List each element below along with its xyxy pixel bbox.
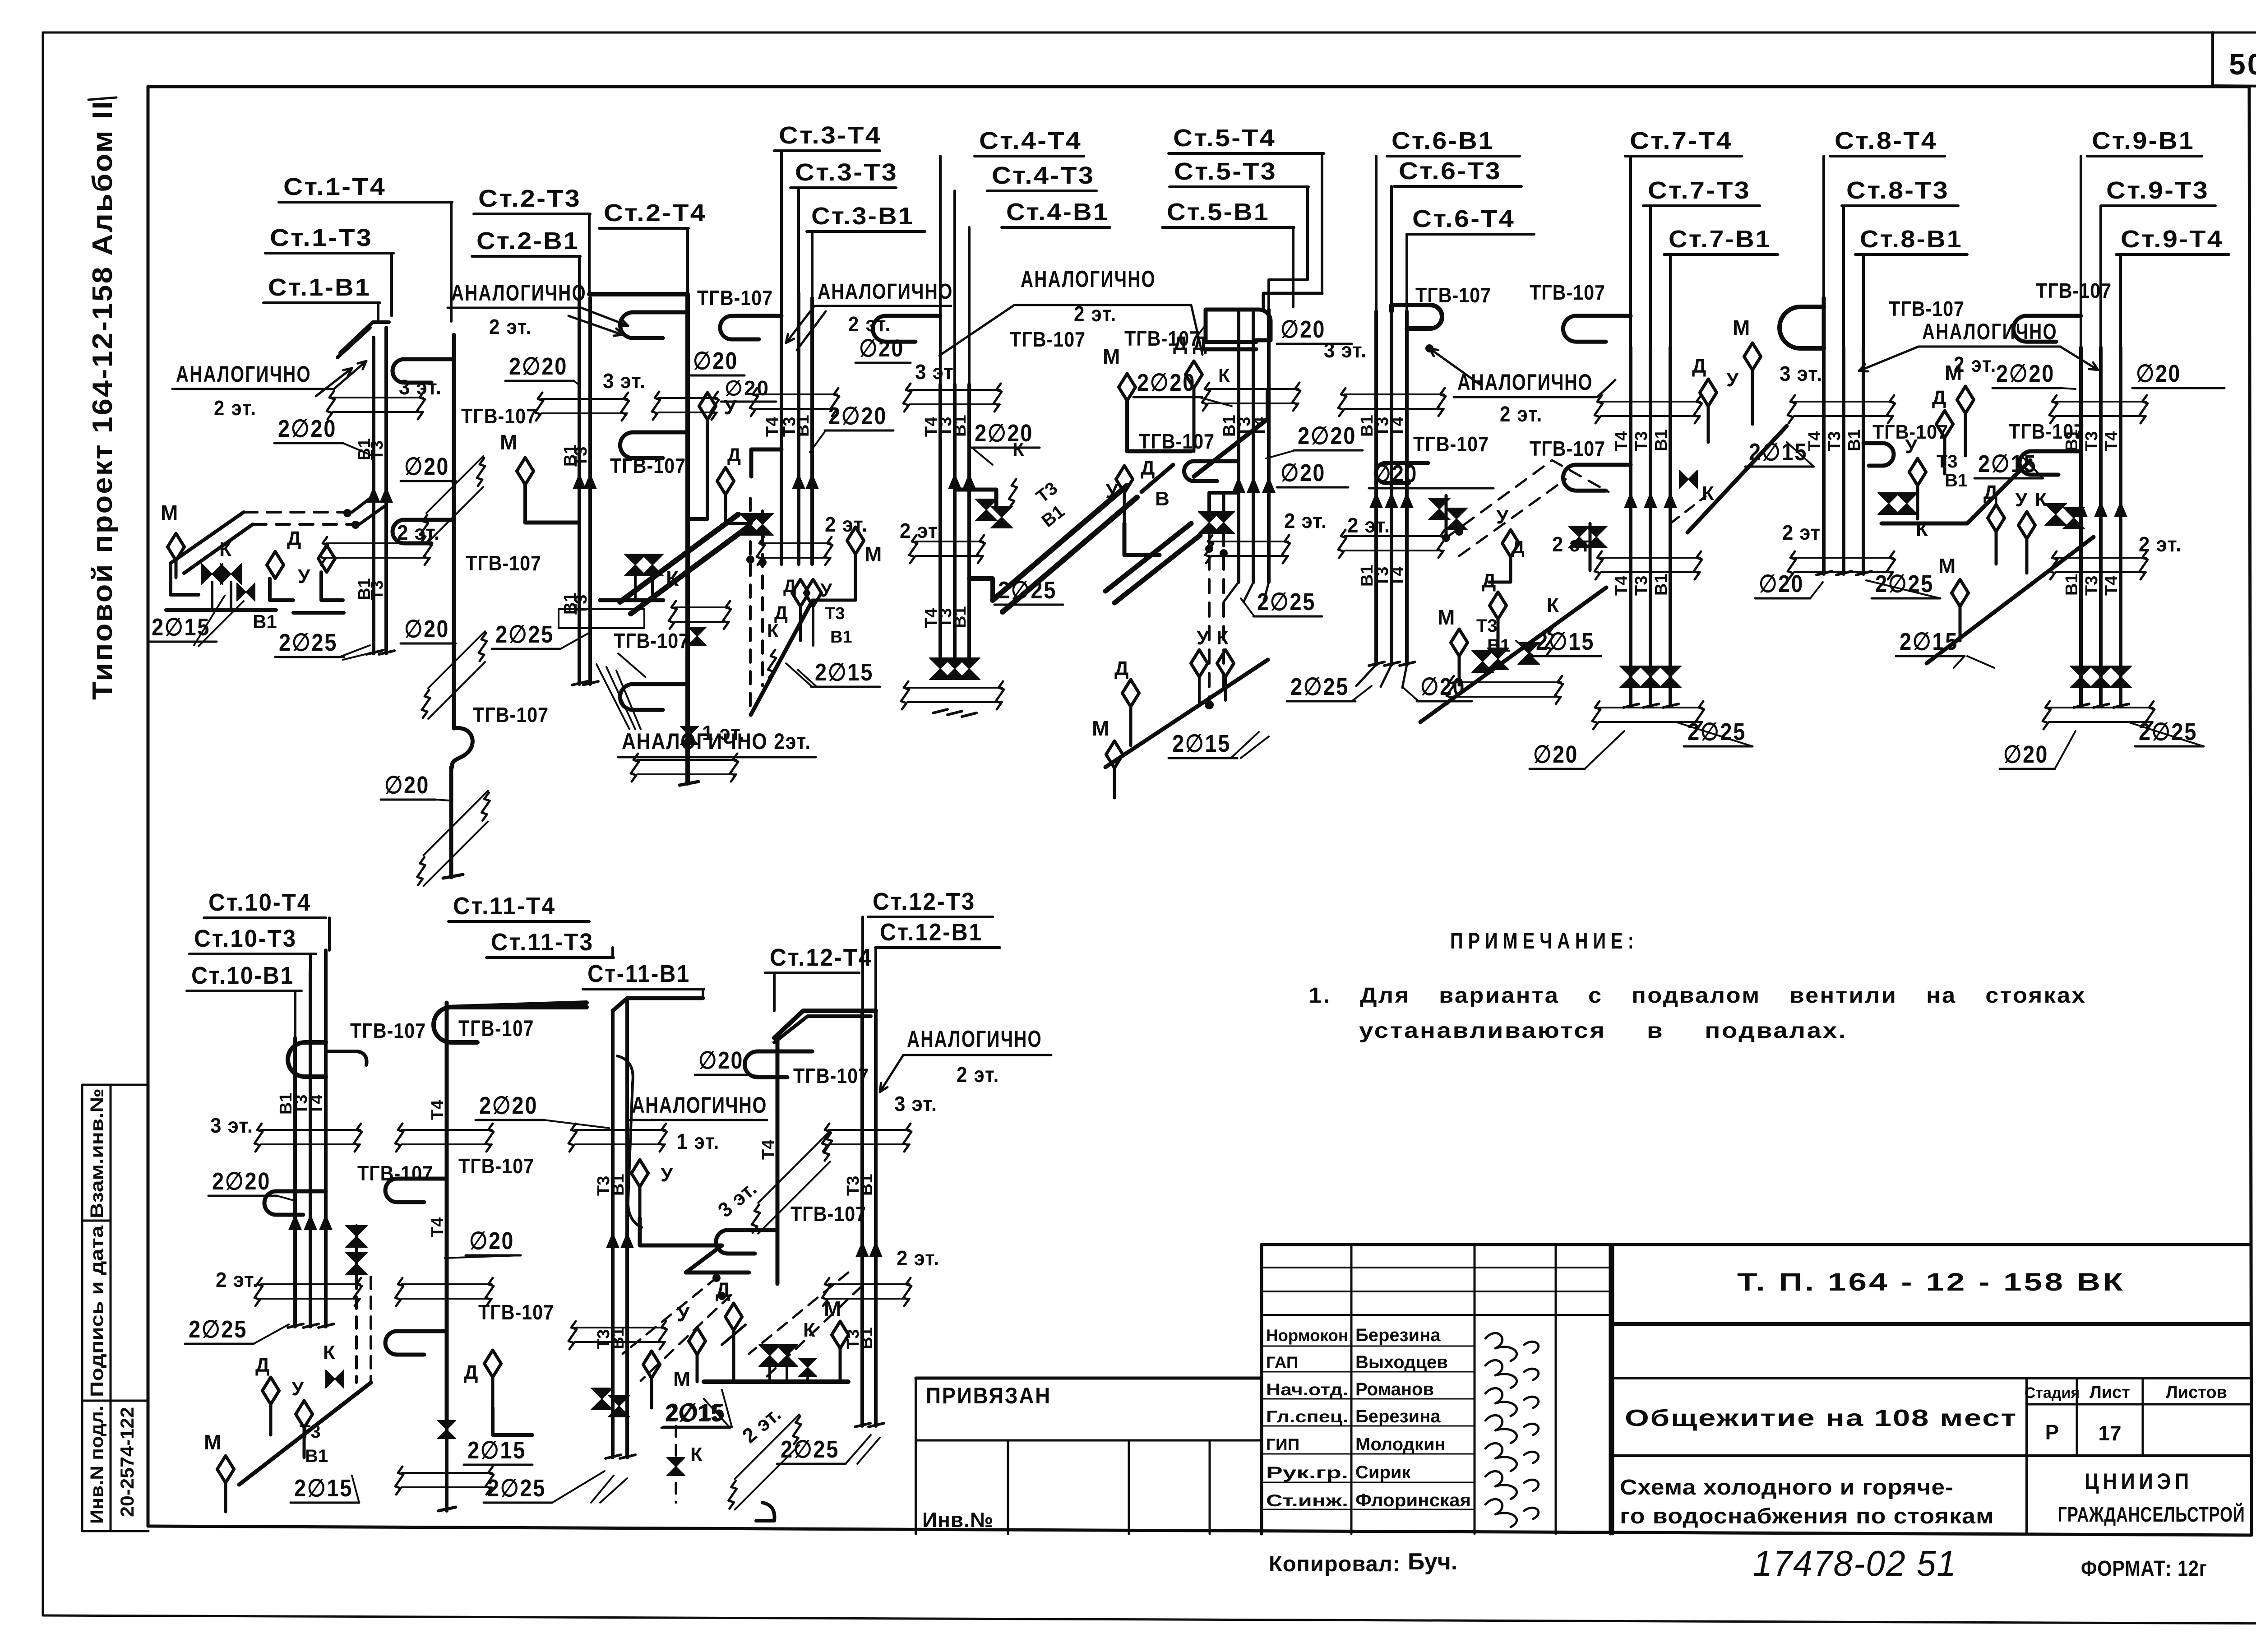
towel rail xyxy=(1563,316,1631,342)
valve pair 3 xyxy=(740,514,761,535)
pipe riser x=4700 xyxy=(2119,347,2122,707)
svg-text:Ст.6-В1: Ст.6-В1 xyxy=(1392,127,1494,154)
svg-text:У: У xyxy=(2015,489,2028,511)
svg-text:1 эт.: 1 эт. xyxy=(677,1130,720,1154)
floor crossing col 2 xyxy=(402,1283,492,1285)
svg-text:М: М xyxy=(864,542,882,566)
pipe Т4 12 xyxy=(776,1038,780,1284)
svg-text:Т4: Т4 xyxy=(1388,417,1407,437)
cluster base 1 xyxy=(166,608,276,612)
svg-text:ТГВ-107: ТГВ-107 xyxy=(791,1202,866,1226)
valve pair 8 xyxy=(1878,493,1900,514)
svg-text:Т3: Т3 xyxy=(2082,576,2101,596)
svg-text:Молодкин: Молодкин xyxy=(1355,1435,1446,1454)
svg-text:Нач.отд.: Нач.отд. xyxy=(1266,1380,1348,1399)
pipe riser x=1770 xyxy=(797,293,800,564)
svg-text:Инв.N подл.: Инв.N подл. xyxy=(87,1406,107,1524)
svg-text:3 эт.: 3 эт. xyxy=(1780,362,1822,385)
svg-text:В1: В1 xyxy=(830,628,852,647)
fixture У xyxy=(699,393,716,420)
svg-text:Листов: Листов xyxy=(2166,1383,2227,1402)
dashed risers 5 xyxy=(1208,532,1211,704)
svg-text:2∅15: 2∅15 xyxy=(667,1399,726,1426)
svg-text:3 эт.: 3 эт. xyxy=(713,1176,761,1222)
svg-text:∅20: ∅20 xyxy=(693,347,738,375)
flow arrow xyxy=(855,1241,869,1257)
leader 12 xyxy=(880,1055,903,1092)
svg-text:К: К xyxy=(666,567,679,590)
pipe riser x=4086 xyxy=(1842,347,1845,574)
svg-text:2∅25: 2∅25 xyxy=(1257,588,1316,615)
valve pair 5 xyxy=(1198,512,1220,533)
leader arrow xyxy=(334,361,366,389)
svg-text:2 эт.: 2 эт. xyxy=(397,521,440,544)
pipe riser x=3614 xyxy=(1629,347,1632,707)
svg-text:ГИП: ГИП xyxy=(1266,1435,1299,1454)
junction dots 1 xyxy=(343,509,351,517)
towel rail 5m xyxy=(1184,461,1236,481)
svg-text:2∅25: 2∅25 xyxy=(781,1436,839,1463)
dashed connector 1b xyxy=(253,523,359,526)
pipe diagonal pair xyxy=(620,514,738,602)
svg-text:Ст.7-Т4: Ст.7-Т4 xyxy=(1630,127,1733,154)
floor crossing col 1 xyxy=(402,1129,492,1131)
svg-text:Д: Д xyxy=(1482,570,1496,592)
svg-text:2 эт.: 2 эт. xyxy=(957,1063,999,1087)
svg-text:2∅20: 2∅20 xyxy=(479,1092,538,1119)
pipe feet 11 xyxy=(605,1457,635,1458)
pipe riser x=654 xyxy=(293,1038,297,1327)
svg-text:2∅15: 2∅15 xyxy=(815,659,874,686)
flow arrow xyxy=(1400,492,1414,508)
floor crossing 2эт xyxy=(1794,557,1893,559)
svg-text:М: М xyxy=(500,430,517,454)
svg-text:2∅15: 2∅15 xyxy=(1172,730,1231,757)
pipe riser x=1308 xyxy=(588,298,592,684)
floor crossing 2эт 1 xyxy=(326,542,430,544)
valve К bottom xyxy=(667,1458,685,1476)
zig thick 5 xyxy=(1124,523,1160,555)
flow arrow xyxy=(2094,501,2108,517)
svg-text:ТГВ-107: ТГВ-107 xyxy=(2009,420,2085,443)
svg-text:АНАЛОГИЧНО: АНАЛОГИЧНО xyxy=(1021,266,1156,292)
valve К xyxy=(688,627,706,645)
svg-text:Ст.1-Т4: Ст.1-Т4 xyxy=(283,173,386,200)
svg-text:Т3: Т3 xyxy=(2082,431,2101,451)
svg-text:В1: В1 xyxy=(1652,429,1671,451)
pipe riser x=2745 xyxy=(1237,310,1240,582)
svg-text:2∅25: 2∅25 xyxy=(1290,673,1349,700)
svg-text:Ст.2-Т4: Ст.2-Т4 xyxy=(604,199,707,227)
svg-text:ГРАЖДАНСЕЛЬСТРОЙ: ГРАЖДАНСЕЛЬСТРОЙ xyxy=(2058,1503,2245,1526)
svg-text:В1: В1 xyxy=(1845,429,1864,451)
floor crossing xyxy=(658,397,717,399)
pipe top bar xyxy=(589,292,688,296)
flow arrow xyxy=(1369,492,1383,508)
svg-text:ТГВ-107: ТГВ-107 xyxy=(610,454,686,477)
svg-text:2∅20: 2∅20 xyxy=(975,420,1033,447)
pipe ТГВ riser lower xyxy=(449,767,453,877)
dashed diag 12 xyxy=(749,1273,848,1354)
svg-text:В1: В1 xyxy=(794,415,813,437)
pipe riser x=4042 xyxy=(1822,347,1826,574)
floor crossing xyxy=(675,606,729,608)
floor crossing низ 6 xyxy=(1453,681,1561,683)
svg-text:В1: В1 xyxy=(951,606,970,628)
svg-text:2∅15: 2∅15 xyxy=(294,1475,353,1502)
floor crossing 3эт 3 xyxy=(756,393,837,395)
svg-text:Гл.спец.: Гл.спец. xyxy=(1266,1407,1348,1426)
floor crossing 3эт 5 xyxy=(1208,388,1299,390)
svg-text:Т3: Т3 xyxy=(368,580,387,600)
dashed diag 11 xyxy=(623,1277,717,1354)
valve 1эт xyxy=(680,727,698,745)
junction dots xyxy=(712,1274,721,1282)
dashed leg xyxy=(1670,496,1706,523)
dashed parallelogram 6 xyxy=(1446,460,1609,538)
leader 5 xyxy=(1195,325,1206,339)
svg-text:2 эт.: 2 эт. xyxy=(2139,532,2182,556)
flow arrow xyxy=(288,1214,302,1230)
triple valves xyxy=(1620,666,1641,688)
pipe riser x=4612 xyxy=(2079,347,2083,707)
svg-text:ТГВ-107: ТГВ-107 xyxy=(614,629,689,652)
svg-text:Типовой проект 164-12-158: Типовой проект 164-12-158 Альбом II xyxy=(87,100,118,700)
svg-text:Ст.8-Т4: Ст.8-Т4 xyxy=(1835,127,1937,154)
svg-text:Нормокон: Нормокон xyxy=(1266,1326,1348,1345)
svg-text:ТГВ-107: ТГВ-107 xyxy=(1530,437,1605,460)
svg-text:2 эт.: 2 эт. xyxy=(825,513,868,536)
towel rail big xyxy=(1780,307,1824,348)
svg-text:М: М xyxy=(1938,554,1956,578)
floor crossing low 9 xyxy=(2049,707,2153,708)
svg-text:Т3: Т3 xyxy=(572,595,591,615)
title block signature table xyxy=(1262,1243,1610,1246)
svg-text:Д: Д xyxy=(1141,457,1155,479)
pipe feet 6 xyxy=(1356,665,1376,686)
svg-text:Ст.инж.: Ст.инж. xyxy=(1266,1491,1348,1510)
svg-text:2 эт.: 2 эт. xyxy=(489,315,532,338)
cluster base 6 xyxy=(1420,588,1606,722)
towel block 5 xyxy=(1203,310,1271,349)
svg-text:ЦНИИЭП: ЦНИИЭП xyxy=(2085,1469,2193,1494)
title block grid stadia list xyxy=(2025,1378,2028,1534)
svg-text:2∅25: 2∅25 xyxy=(189,1316,247,1343)
floor crossing 2эт 3 xyxy=(763,542,831,544)
svg-text:ПРИВЯЗАН: ПРИВЯЗАН xyxy=(926,1383,1051,1408)
floor crossing 2эт 10 xyxy=(261,1283,360,1285)
svg-text:ТГВ-107: ТГВ-107 xyxy=(1010,328,1086,351)
svg-text:Д: Д xyxy=(1932,387,1946,409)
drop jog В1 5 xyxy=(1292,298,1294,307)
pipe riser x=2778 xyxy=(1252,310,1255,582)
svg-text:∅20: ∅20 xyxy=(859,335,904,362)
flow arrow xyxy=(319,1214,333,1230)
pipe riser x=4656 xyxy=(2099,347,2103,707)
corner step 4 xyxy=(969,578,993,600)
floor crossing 2эт 5 xyxy=(1211,541,1288,542)
svg-text:Ст.6-Т3: Ст.6-Т3 xyxy=(1399,157,1502,185)
floor crossing 3эт 6 xyxy=(1345,393,1444,395)
svg-text:ТГВ-107: ТГВ-107 xyxy=(357,1161,433,1185)
svg-text:2 эт: 2 эт xyxy=(900,519,938,542)
svg-text:Ст-11-В1: Ст-11-В1 xyxy=(587,960,690,987)
towel rail hook xyxy=(452,728,472,767)
cluster base 3 xyxy=(751,601,812,715)
pipe roof 12 xyxy=(774,1011,876,1038)
slanted floor crossing xyxy=(424,791,488,856)
svg-text:2∅25: 2∅25 xyxy=(487,1475,546,1502)
pipe riser x=1284 xyxy=(578,298,581,684)
svg-text:М: М xyxy=(1092,717,1109,740)
svg-text:2∅20: 2∅20 xyxy=(278,415,337,442)
pipe riser x=688 xyxy=(309,970,312,1327)
svg-text:В1: В1 xyxy=(951,415,970,437)
floor crossing 3эт xyxy=(2056,401,2146,403)
svg-text:К: К xyxy=(1216,627,1229,649)
pipe riser x=3084 xyxy=(1390,311,1393,665)
stair double 5 xyxy=(1105,523,1191,591)
svg-text:АНАЛОГИЧНО: АНАЛОГИЧНО xyxy=(907,1026,1042,1052)
pipe stub xyxy=(445,1426,448,1511)
svg-text:Общежитие на 108 мест: Общежитие на 108 мест xyxy=(1625,1405,2017,1431)
svg-text:Ст.3-Т3: Ст.3-Т3 xyxy=(795,159,898,186)
cluster base 9 xyxy=(1927,537,2094,663)
pipe riser x=722 xyxy=(324,950,328,1327)
pipe riser x=1800 xyxy=(810,298,814,564)
pipe riser x=2812 xyxy=(1267,310,1271,582)
svg-text:3 эт.: 3 эт. xyxy=(1324,338,1367,362)
svg-text:АНАЛОГИЧНО: АНАЛОГИЧНО xyxy=(632,1092,767,1118)
svg-text:М: М xyxy=(1733,316,1750,339)
svg-text:2∅25: 2∅25 xyxy=(495,621,554,648)
svg-text:Стадия: Стадия xyxy=(2025,1384,2080,1402)
svg-text:В1: В1 xyxy=(857,1327,876,1349)
towel rail 9b xyxy=(2020,451,2081,475)
drop Т4 6 xyxy=(1405,234,1408,311)
leader fan 3 xyxy=(786,306,814,343)
left margin boxes xyxy=(82,1084,148,1086)
svg-text:Ст.6-Т4: Ст.6-Т4 xyxy=(1412,205,1515,232)
svg-text:Ст.10-В1: Ст.10-В1 xyxy=(191,962,294,989)
pipe feet 4 xyxy=(933,709,948,713)
svg-text:Копировал:: Копировал: xyxy=(1269,1552,1401,1576)
svg-text:В1: В1 xyxy=(1945,471,1968,491)
svg-text:АНАЛОГИЧНО: АНАЛОГИЧНО xyxy=(451,280,587,305)
svg-text:Д: Д xyxy=(287,528,301,550)
svg-text:2 эт.: 2 эт. xyxy=(1347,514,1390,537)
svg-text:Д: Д xyxy=(716,1278,730,1301)
pipe riser x=3118 xyxy=(1405,311,1409,665)
pipe riser x=4130 xyxy=(1862,347,1865,574)
svg-text:В1: В1 xyxy=(253,611,277,632)
svg-text:Т4: Т4 xyxy=(428,1217,447,1237)
svg-text:∅20: ∅20 xyxy=(1281,459,1326,486)
zig pipe 5 xyxy=(1194,392,1268,477)
floor crossing 2эт xyxy=(2056,557,2146,559)
svg-text:2 эт.: 2 эт. xyxy=(897,1246,939,1270)
pipe riser x=2084 xyxy=(938,384,942,558)
cluster base 10 xyxy=(239,1383,371,1485)
svg-text:Т3: Т3 xyxy=(368,440,387,460)
svg-text:Ст.9-Т3: Ст.9-Т3 xyxy=(2106,177,2209,204)
valve pair xyxy=(624,554,646,576)
svg-text:Д: Д xyxy=(1983,481,1997,504)
dashed risers 3 xyxy=(749,498,752,714)
svg-text:2 эт.: 2 эт. xyxy=(1500,403,1543,426)
svg-text:Ст.9-В1: Ст.9-В1 xyxy=(2092,127,2195,154)
svg-text:∅20: ∅20 xyxy=(469,1227,514,1254)
svg-text:К: К xyxy=(1547,594,1559,616)
floor crossing low 4 xyxy=(907,687,1002,689)
svg-text:Т4: Т4 xyxy=(1612,576,1631,596)
flow arrow xyxy=(583,473,597,489)
pipe lower 4 xyxy=(953,558,957,659)
svg-text:2∅20: 2∅20 xyxy=(212,1168,271,1195)
triple valves 9 xyxy=(2070,666,2092,688)
svg-text:2∅15: 2∅15 xyxy=(1536,628,1595,655)
svg-text:Ст.1-В1: Ст.1-В1 xyxy=(268,274,371,301)
svg-text:М: М xyxy=(1945,361,1962,384)
svg-text:1. Для варианта с подвалом вен: 1. Для варианта с подвалом вентили на ст… xyxy=(1308,984,2086,1008)
svg-text:ТГВ-107: ТГВ-107 xyxy=(2036,279,2112,302)
leader right xyxy=(2060,347,2098,370)
svg-text:∅20: ∅20 xyxy=(404,615,449,643)
svg-text:Инв.№: Инв.№ xyxy=(922,1508,994,1532)
svg-text:∅20: ∅20 xyxy=(1373,460,1418,487)
pipe end xyxy=(680,782,698,785)
svg-text:У: У xyxy=(1496,506,1509,528)
svg-text:2∅15: 2∅15 xyxy=(467,1437,526,1464)
svg-text:Лист: Лист xyxy=(2090,1383,2130,1402)
svg-text:17478-02 51: 17478-02 51 xyxy=(1753,1543,1957,1583)
svg-text:У: У xyxy=(1197,627,1209,649)
svg-text:3 эт.: 3 эт. xyxy=(894,1092,937,1115)
svg-text:ТГВ-107: ТГВ-107 xyxy=(458,1154,534,1178)
dashed connector 1a xyxy=(244,511,352,514)
flow arrow xyxy=(304,1214,317,1230)
end dots 5 xyxy=(1205,700,1214,709)
pipe riser x=828 xyxy=(372,338,375,653)
svg-text:Т4: Т4 xyxy=(759,1140,778,1160)
big towel rail 11 xyxy=(434,1007,587,1042)
svg-text:Ст.7-В1: Ст.7-В1 xyxy=(1669,226,1771,253)
signatures column xyxy=(1485,1333,1539,1361)
towel block 6 xyxy=(1392,305,1442,329)
pipe Т4 riser xyxy=(685,294,690,783)
svg-text:устанавливаются в подвалах.: устанавливаются в подвалах. xyxy=(1359,1019,1847,1043)
svg-text:Д: Д xyxy=(464,1361,478,1384)
svg-text:Ст.11-Т4: Ст.11-Т4 xyxy=(453,893,556,920)
svg-text:ТГВ-107: ТГВ-107 xyxy=(1413,432,1489,456)
svg-text:Т4: Т4 xyxy=(2102,576,2121,596)
drop jog Т3 5 xyxy=(1269,253,1308,310)
svg-text:В1: В1 xyxy=(609,1174,628,1196)
svg-text:20-2574-122: 20-2574-122 xyxy=(116,1407,138,1517)
svg-text:3 эт.: 3 эт. xyxy=(210,1114,253,1137)
towel rail ТГВ-107 xyxy=(393,520,454,543)
pipe riser x=1941 xyxy=(874,1011,878,1426)
leader left xyxy=(1859,347,1919,371)
svg-text:2 эт.: 2 эт. xyxy=(214,396,257,420)
pipe end col xyxy=(439,1507,456,1511)
junction dots 3 xyxy=(746,555,754,564)
svg-text:2 эт: 2 эт xyxy=(1782,521,1821,544)
svg-text:ТГВ-107: ТГВ-107 xyxy=(1530,281,1605,304)
svg-text:АНАЛОГИЧНО 2эт.: АНАЛОГИЧНО 2эт. xyxy=(622,729,811,754)
svg-text:2∅15: 2∅15 xyxy=(152,614,210,641)
svg-text:Т4: Т4 xyxy=(1805,431,1824,451)
pipe bar xyxy=(600,598,663,602)
svg-text:Выходцев: Выходцев xyxy=(1355,1352,1448,1372)
floor crossing 1эт xyxy=(637,759,736,761)
svg-text:В1: В1 xyxy=(1038,501,1068,531)
svg-text:У: У xyxy=(677,1302,690,1326)
svg-text:Ст.12-Т3: Ст.12-Т3 xyxy=(873,888,975,915)
svg-text:го водоснабжения по стоякам: го водоснабжения по стоякам xyxy=(1620,1504,1994,1528)
svg-text:Т4: Т4 xyxy=(763,417,782,437)
svg-text:У: У xyxy=(291,1378,304,1400)
svg-text:∅20: ∅20 xyxy=(404,453,449,480)
svg-text:К: К xyxy=(1218,365,1230,386)
towel rail 10 xyxy=(288,1042,326,1077)
leader arrow xyxy=(569,316,623,335)
svg-text:ТГВ-107: ТГВ-107 xyxy=(458,1016,534,1041)
floor crossing 3эт 1 xyxy=(333,397,423,398)
trapezoid leader xyxy=(939,305,1202,356)
svg-text:ТГВ-107: ТГВ-107 xyxy=(461,404,537,428)
svg-text:2∅25: 2∅25 xyxy=(998,577,1057,604)
svg-text:ТГВ-107: ТГВ-107 xyxy=(466,551,541,575)
svg-text:∅20: ∅20 xyxy=(1759,570,1804,597)
svg-text:Д: Д xyxy=(1692,355,1706,377)
leader fan xyxy=(596,664,629,729)
svg-text:2∅25: 2∅25 xyxy=(279,629,337,656)
slanted floor crossing xyxy=(426,456,483,513)
pipe riser x=2116 xyxy=(953,384,957,558)
valve pair 9 xyxy=(2045,504,2066,525)
valve pair 11 xyxy=(591,1388,613,1410)
svg-text:Т4: Т4 xyxy=(2102,431,2121,451)
flow arrow xyxy=(1247,477,1260,493)
svg-text:2∅20: 2∅20 xyxy=(509,353,568,380)
svg-text:50: 50 xyxy=(2229,47,2256,81)
svg-text:Р: Р xyxy=(2045,1421,2059,1444)
svg-text:∅20: ∅20 xyxy=(2136,360,2181,387)
valve col xyxy=(438,1421,456,1439)
towel rail 6m xyxy=(1376,463,1428,483)
cluster base xyxy=(1687,426,1787,532)
floor crossing 2эт xyxy=(1601,557,1700,559)
svg-text:Ст.9-Т4: Ст.9-Т4 xyxy=(2121,226,2224,253)
svg-text:Березина: Березина xyxy=(1355,1325,1441,1345)
svg-text:Ст.12-Т4: Ст.12-Т4 xyxy=(770,944,873,971)
svg-text:2∅15: 2∅15 xyxy=(1900,628,1958,655)
towel rail2 xyxy=(1563,465,1631,491)
flow arrow xyxy=(379,486,393,503)
valve stub 6 xyxy=(1445,495,1448,538)
svg-text:ПРИМЕЧАНИЕ:: ПРИМЕЧАНИЕ: xyxy=(1450,928,1639,953)
flow arrows 3 xyxy=(792,473,805,489)
svg-text:Ст.4-Т3: Ст.4-Т3 xyxy=(992,162,1095,189)
svg-text:ГАП: ГАП xyxy=(1266,1353,1298,1372)
svg-text:17: 17 xyxy=(2098,1421,2121,1445)
svg-text:ТГВ-107: ТГВ-107 xyxy=(350,1019,426,1042)
svg-text:АНАЛОГИЧНО: АНАЛОГИЧНО xyxy=(176,361,311,387)
svg-text:Рук.гр.: Рук.гр. xyxy=(1266,1463,1348,1482)
svg-text:Т3: Т3 xyxy=(1632,431,1651,451)
svg-text:2∅20: 2∅20 xyxy=(1298,422,1356,449)
